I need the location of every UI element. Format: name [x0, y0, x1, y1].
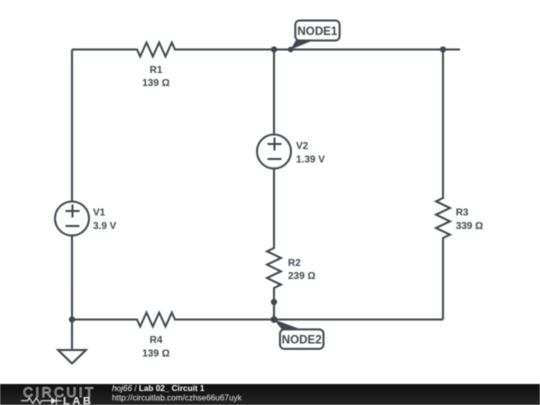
- svg-text:http://circuitlab.com/czhse66u: http://circuitlab.com/czhse66u67uyk: [112, 393, 243, 402]
- svg-text:NODE2: NODE2: [282, 334, 322, 347]
- svg-text:V1: V1: [93, 208, 106, 219]
- svg-text:139 Ω: 139 Ω: [142, 78, 169, 89]
- svg-text:V2: V2: [296, 141, 309, 152]
- svg-text:R4: R4: [150, 335, 163, 346]
- svg-text:NODE1: NODE1: [297, 25, 337, 38]
- svg-text:hoj66 / Lab 02_ Circuit 1: hoj66 / Lab 02_ Circuit 1: [112, 384, 205, 393]
- svg-text:239 Ω: 239 Ω: [288, 271, 315, 282]
- svg-text:139 Ω: 139 Ω: [142, 348, 169, 359]
- svg-text:R2: R2: [288, 258, 301, 269]
- svg-text:R3: R3: [456, 208, 469, 219]
- svg-text:339 Ω: 339 Ω: [456, 221, 483, 232]
- svg-text:LAB: LAB: [63, 395, 93, 405]
- svg-text:R1: R1: [150, 65, 163, 76]
- svg-text:3.9 V: 3.9 V: [93, 221, 117, 232]
- svg-text:1.39 V: 1.39 V: [296, 154, 325, 165]
